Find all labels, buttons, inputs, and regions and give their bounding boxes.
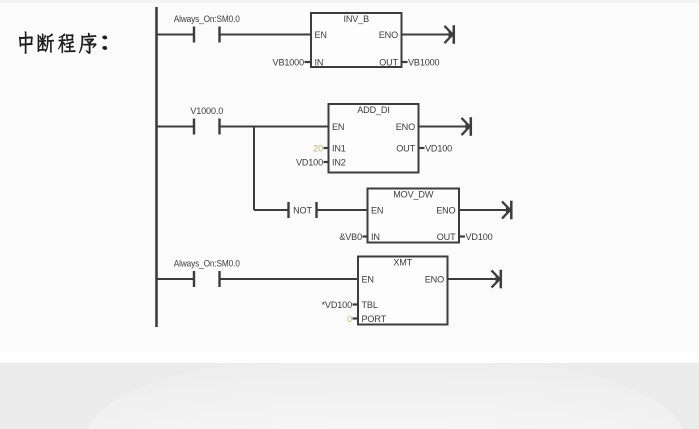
tick IN input MOV_DW <box>363 235 368 237</box>
svg-text:VD100: VD100 <box>425 144 452 154</box>
svg-text:IN2: IN2 <box>332 158 346 168</box>
tick PORT input XMT <box>353 317 359 319</box>
svg-text:ENO: ENO <box>379 30 398 40</box>
wire rung1 ENO to arrow <box>402 34 453 36</box>
svg-text:*VD100: *VD100 <box>322 300 353 310</box>
wire rung1 rail to contact <box>157 34 195 36</box>
contact V1000.0 rung2 <box>190 106 223 135</box>
svg-text:XMT: XMT <box>393 258 412 268</box>
NOT instruction contact <box>289 202 317 218</box>
svg-text:MOV_DW: MOV_DW <box>393 190 434 200</box>
left power rail <box>155 7 158 327</box>
svg-text:ENO: ENO <box>396 122 415 132</box>
op box MOV_DW U3 <box>368 189 460 243</box>
open arrow terminator rung1 <box>445 25 454 44</box>
svg-text:VD100: VD100 <box>466 232 493 242</box>
svg-text:TBL: TBL <box>362 300 378 310</box>
tick OUT output MOV_DW <box>459 235 465 237</box>
tick IN2 input ADD_DI <box>324 161 329 163</box>
svg-text:ADD_DI: ADD_DI <box>357 105 389 115</box>
tick OUT output ADD_DI <box>419 147 425 149</box>
open arrow terminator branch <box>502 201 511 220</box>
contact Always_On:SM0.0 rung4 <box>174 259 240 288</box>
svg-text:INV_B: INV_B <box>343 14 369 24</box>
svg-text:Always_On:SM0.0: Always_On:SM0.0 <box>174 14 240 24</box>
open arrow terminator rung4 <box>492 270 501 289</box>
tick TBL input XMT <box>353 303 359 305</box>
svg-text:ENO: ENO <box>436 205 455 215</box>
svg-text:PORT: PORT <box>362 314 387 324</box>
wire branch ENO to arrow <box>459 209 510 211</box>
svg-text:ENO: ENO <box>425 274 444 284</box>
svg-text:EN: EN <box>371 205 383 215</box>
svg-text:EN: EN <box>315 30 327 40</box>
svg-text:OUT: OUT <box>379 58 398 68</box>
tick IN input INV_B <box>305 61 312 63</box>
svg-text:EN: EN <box>362 274 374 284</box>
svg-text:NOT: NOT <box>293 205 312 215</box>
tick OUT output INV_B <box>402 61 408 63</box>
wire rung4 contact to XMT <box>220 278 359 280</box>
op box INV_B U1 <box>311 13 402 68</box>
contact Always_On:SM0.0 rung1 <box>174 14 240 43</box>
wire rung2 contact to ADD_DI <box>220 126 329 128</box>
wire rung4 ENO to arrow <box>448 278 500 280</box>
svg-text:VB1000: VB1000 <box>273 58 305 68</box>
wire rung4 rail to contact <box>157 278 195 280</box>
svg-text:Always_On:SM0.0: Always_On:SM0.0 <box>174 259 240 269</box>
svg-text:VB1000: VB1000 <box>408 58 440 68</box>
open arrow terminator rung2 <box>462 117 471 136</box>
svg-text:IN: IN <box>315 58 324 68</box>
tick IN1 input ADD_DI <box>324 147 329 149</box>
wire rung2 rail to contact <box>157 126 195 128</box>
svg-text:IN: IN <box>371 232 380 242</box>
svg-text:EN: EN <box>332 122 344 132</box>
caption text 中断程序: <box>19 32 107 54</box>
svg-text:&VB0: &VB0 <box>339 232 362 242</box>
branch wire down from rung2 <box>253 127 255 211</box>
svg-text:V1000.0: V1000.0 <box>190 106 223 116</box>
svg-text:0: 0 <box>347 314 352 324</box>
wire NOT to MOV_DW <box>317 209 368 211</box>
wire rung1 contact to INV_B <box>220 34 312 36</box>
svg-text:20: 20 <box>313 144 323 154</box>
svg-text:VD100: VD100 <box>296 158 323 168</box>
op box ADD_DI U2 <box>329 104 419 173</box>
op box XMT U4 <box>358 257 448 325</box>
wire rung2 ENO to arrow <box>419 126 470 128</box>
svg-text:OUT: OUT <box>437 232 456 242</box>
wire branch to NOT <box>254 209 289 211</box>
svg-text:OUT: OUT <box>396 144 415 154</box>
svg-text:IN1: IN1 <box>332 144 346 154</box>
